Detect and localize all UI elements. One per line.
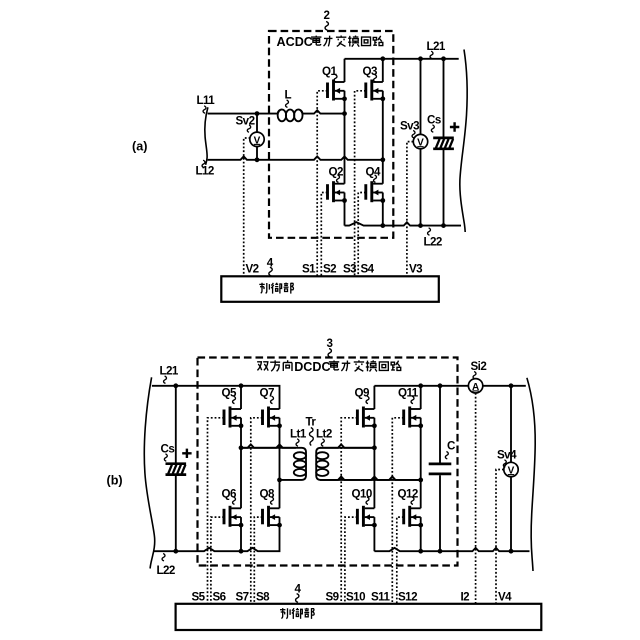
svg-text:(a): (a) (132, 140, 147, 154)
wire L12 (208, 156, 383, 159)
svg-text:L11: L11 (197, 94, 216, 107)
right break curve (fig b) (527, 378, 535, 571)
source junction dot Q3 (380, 96, 385, 101)
svg-text:S1: S1 (302, 262, 316, 275)
leg Q3/Q4 vertical segments (382, 59, 384, 226)
source junction dot Q7 (277, 423, 282, 428)
transistor Q1 (328, 80, 345, 101)
capacitor C plates (429, 464, 452, 474)
transistor Q11 (404, 407, 421, 428)
svg-text:Si2: Si2 (471, 360, 487, 373)
junction dots legs (fig b) (239, 383, 244, 388)
source junction dot Q2 (342, 198, 347, 203)
leg Q7/Q8 vertical segments (279, 418, 281, 509)
svg-text:Q9: Q9 (355, 386, 370, 399)
transistor Q3 (366, 80, 383, 101)
transistor Q10 (357, 506, 374, 527)
junction dot midpoint A (inductor to Q1/Q2) (342, 111, 347, 116)
transistor Q6 (224, 506, 241, 527)
svg-text:S8: S8 (256, 590, 270, 603)
dashed box ACDC converter circuit 2 (269, 31, 393, 238)
dashed box bidirectional DCDC converter circuit 3 (198, 358, 458, 566)
svg-text:L22: L22 (157, 564, 175, 577)
gate line Q1 dotted (317, 91, 327, 276)
plus polarity (fig a) (450, 122, 459, 131)
svg-text:Q7: Q7 (260, 386, 274, 399)
svg-text:I2: I2 (461, 590, 470, 603)
gate line Q3 dotted (355, 91, 366, 276)
left break curve (fig b) (144, 377, 154, 568)
text 制御部 (fig b) (280, 608, 290, 619)
capacitor C branch wire (439, 386, 441, 551)
capacitor Cs (fig a) (433, 138, 454, 149)
transistor Q2 (328, 181, 345, 202)
svg-text:C: C (447, 439, 456, 452)
junction dots Cs branch (173, 383, 178, 388)
capacitor Cs (fig b) (166, 464, 187, 475)
right bottom rail (fig b) (374, 548, 529, 551)
junction dots C branch (438, 383, 443, 388)
voltage sensor Sv3 branch wire (420, 59, 422, 226)
gate line Q10 dotted (345, 517, 358, 604)
svg-text:S12: S12 (398, 590, 417, 603)
inductor L coil (278, 110, 303, 122)
wire Lt2 to midpoints C,D hops (320, 444, 374, 447)
svg-text:V2: V2 (246, 262, 259, 275)
output vertical wire (fig b) (510, 386, 512, 551)
transistor Q4 (366, 181, 383, 202)
svg-text:Q11: Q11 (398, 386, 419, 399)
source junction dot Q4 (380, 198, 385, 203)
svg-text:L: L (285, 89, 292, 102)
svg-text:Sv2: Sv2 (236, 115, 255, 128)
svg-text:L21: L21 (160, 364, 179, 377)
sense line V2 dotted (244, 138, 251, 276)
gate line Q2 dotted (321, 193, 327, 277)
source junction dot Q12 (418, 523, 423, 528)
wire L11 left segment with break mark (208, 113, 278, 115)
wire midpoint A to Lt1 hops (241, 444, 296, 447)
title 双方向DCDC電力変換回路 (257, 362, 268, 371)
gate line Q4 dotted (358, 193, 366, 277)
gate line Q7 dotted (251, 418, 263, 604)
current sensor Si2 (468, 379, 482, 393)
junction dot midpoint B (L12 to Q3/Q4) (380, 157, 385, 162)
svg-text:L22: L22 (424, 236, 442, 249)
transistor Q12 (404, 506, 421, 527)
bottom rail L22 (fig a) (345, 222, 462, 225)
sense line I2 dotted (475, 393, 477, 604)
transistor Q7 (263, 407, 280, 428)
svg-text:V3: V3 (409, 262, 423, 275)
svg-text:(b): (b) (107, 474, 123, 488)
source junction dot Q5 (239, 423, 244, 428)
source junction dot Q8 (277, 523, 282, 528)
transistor Q9 (357, 407, 374, 428)
left top rail L21 (fig b) (152, 386, 280, 409)
text 制御部 (fig a) (259, 283, 269, 294)
wire L11 right segment into bridge (303, 110, 345, 113)
svg-text:ACDC: ACDC (277, 35, 313, 49)
source junction dot Q9 (372, 423, 377, 428)
gate line Q12 dotted (397, 517, 404, 604)
svg-text:Sv4: Sv4 (497, 448, 517, 461)
svg-text:S2: S2 (323, 262, 336, 275)
svg-text:2: 2 (324, 9, 330, 22)
transformer Tr primary Lt1 (241, 448, 306, 480)
svg-text:Q1: Q1 (322, 65, 337, 78)
sense line V4 dotted (496, 470, 504, 604)
svg-text:S11: S11 (371, 590, 390, 603)
capacitor Cs branch wire (fig a) (443, 59, 445, 226)
gate line Q6 dotted (211, 517, 224, 604)
svg-text:DCDC: DCDC (294, 360, 330, 374)
svg-text:Lt2: Lt2 (316, 427, 332, 440)
transformer Tr secondary Lt2 (316, 448, 421, 480)
svg-text:S6: S6 (213, 590, 227, 603)
control unit box (fig a) (221, 276, 438, 302)
svg-text:Tr: Tr (306, 415, 317, 428)
svg-text:S9: S9 (326, 590, 340, 603)
svg-text:S10: S10 (346, 590, 365, 603)
svg-text:Sv3: Sv3 (400, 119, 420, 132)
voltage sensor Sv3 (413, 134, 427, 148)
voltage sensor Sv4 (504, 462, 518, 476)
leg Q1/Q2 vertical segments (344, 59, 346, 226)
gate line Q8 dotted (254, 517, 262, 604)
sense line V3 dotted (407, 142, 413, 277)
source junction dot Q1 (342, 96, 347, 101)
svg-text:Lt1: Lt1 (290, 427, 307, 440)
svg-text:L12: L12 (196, 165, 214, 178)
svg-text:Q4: Q4 (366, 165, 381, 178)
svg-text:Cs: Cs (161, 442, 175, 455)
svg-text:3: 3 (327, 337, 334, 350)
junction dots Sv2 (255, 111, 260, 116)
svg-text:Q2: Q2 (329, 165, 343, 178)
right top rail (fig b) (374, 385, 525, 387)
leg Q11/Q12 vertical segments (420, 386, 422, 551)
left bottom rail L22 (fig b) (154, 517, 280, 551)
svg-text:S3: S3 (343, 262, 357, 275)
leg Q5/Q6 vertical segments (240, 386, 242, 551)
transistor Q5 (224, 407, 241, 428)
gate line Q11 dotted (392, 418, 403, 604)
svg-text:L21: L21 (427, 40, 446, 53)
leader squiggle for 2 (325, 22, 328, 31)
svg-text:V4: V4 (498, 590, 512, 603)
svg-text:Q12: Q12 (398, 487, 418, 500)
top rail L21 (fig a) (345, 58, 459, 60)
gate line Q5 dotted (208, 418, 225, 604)
svg-text:S5: S5 (192, 590, 206, 603)
left break curve (205, 107, 208, 165)
source junction dot Q11 (418, 423, 423, 428)
right break curve (fig a) (460, 50, 467, 233)
voltage sensor Sv2 branch wire (256, 114, 258, 160)
leg Q9/Q10 vertical segments (373, 386, 375, 551)
rail junction dots (fig a) (380, 56, 385, 61)
capacitor Cs branch wire (fig b) (175, 386, 177, 551)
transistor Q8 (263, 506, 280, 527)
source junction dot Q6 (239, 523, 244, 528)
plus polarity (fig b) (182, 449, 191, 458)
gate line Q9 dotted (341, 418, 357, 604)
source junction dot Q10 (372, 523, 377, 528)
svg-text:S7: S7 (236, 590, 249, 603)
svg-text:Cs: Cs (427, 113, 441, 126)
control unit box (fig b) (176, 604, 542, 630)
svg-text:S4: S4 (361, 262, 375, 275)
voltage sensor Sv2 (250, 132, 264, 146)
